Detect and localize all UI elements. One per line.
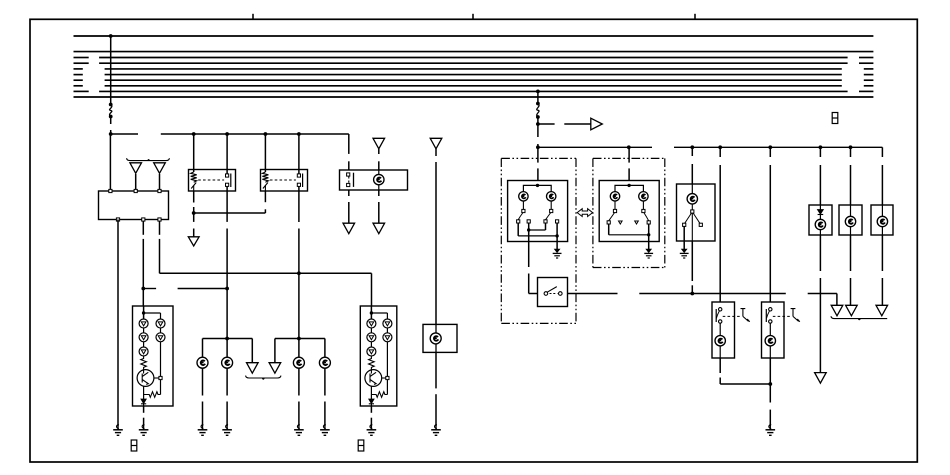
wire S1 right pin down: [378, 190, 380, 196]
wire tie to triangle: [193, 213, 195, 222]
wire dome lamp2 to sw: [550, 201, 552, 210]
ground G6: [222, 425, 232, 436]
lamp L3: [197, 357, 208, 368]
wire switch to lamp door A: [719, 323, 721, 335]
node right lamp group feed: [297, 337, 301, 341]
node relay R1 coil feed: [192, 132, 196, 136]
node main feed right: [536, 145, 540, 149]
node battery tap left: [109, 34, 113, 38]
wire drop triangle D2: [274, 339, 276, 363]
ground G3: [139, 425, 149, 436]
switch door B bar: [765, 309, 767, 322]
relay R2 contact pad bottom: [297, 183, 300, 186]
ground G4: [367, 425, 377, 436]
wire S2 output right: [568, 293, 618, 295]
shield box E2 (dome light assembly 2): [593, 157, 665, 159]
wire relay R1 contact pin up: [226, 134, 228, 175]
wire bus line 3: [74, 57, 89, 59]
door A actuator lever: [741, 309, 750, 322]
wire lamp box L2 to ground: [435, 353, 437, 389]
wire node to node: [537, 124, 539, 137]
wire door B output: [769, 358, 771, 384]
resistor M1 R2 (horizontal): [144, 392, 161, 398]
pin throw 3a: [607, 221, 610, 224]
switch dome blade 2: [546, 213, 551, 220]
node relay R2 coil feed: [264, 132, 268, 136]
pin U1 bottom 1: [116, 218, 119, 221]
wire x436 down to lamp box: [435, 149, 437, 156]
wire switch net y293.5 right part: [639, 293, 692, 295]
wire coil tie y213: [194, 212, 266, 214]
wire U1 pin to ground (x117.5): [117, 220, 119, 427]
wire feed to door unit A: [719, 147, 721, 157]
indicator lamp M2-1: [367, 319, 376, 328]
wire cross feed down to meter M2: [371, 273, 373, 306]
switch door A bar: [715, 309, 717, 322]
lamp luggage: [687, 194, 697, 204]
node door lamp A feed: [718, 145, 722, 149]
wire M1 branch right: [144, 312, 161, 314]
pin throw 2a: [544, 220, 547, 223]
pin dome2 sw2 common: [642, 209, 645, 212]
wire Q1 base link: [154, 377, 159, 379]
node dome2 tie: [647, 233, 650, 236]
node left lamp group feed: [225, 337, 229, 341]
switch S2 terminal 1: [544, 292, 548, 296]
pin throw 3b: [619, 221, 623, 224]
vanity lamp 2 box body: [871, 205, 893, 235]
switch S2 terminal 2: [559, 292, 563, 296]
node relay R1 contact feed: [225, 132, 229, 136]
wire link to node: [537, 117, 539, 124]
switch-lamp unit S1 body: [340, 170, 408, 190]
arrow to other system: [538, 123, 555, 125]
resistor M2 R: [369, 356, 375, 370]
lamp L5: [293, 357, 304, 368]
door courtesy unit B body: [762, 302, 785, 358]
wire triangle C1 down: [378, 149, 380, 154]
combination meter M1 body: [133, 306, 174, 406]
indicator lamp M2-4: [383, 319, 392, 328]
wire relay R2 coil output down: [264, 191, 266, 202]
wire bus line 1 (top feed): [74, 35, 874, 37]
lamp door B: [765, 336, 775, 346]
wire bus line 10 (bottom): [74, 96, 874, 98]
wire dome2 branches: [615, 185, 643, 191]
wire luggage throw to ground: [683, 226, 685, 249]
wire relay R1 coil pin up: [193, 134, 195, 172]
wire M2 right column down: [386, 342, 388, 395]
joint brace E3-F2-F3: [831, 316, 887, 320]
connector triangle C1: [373, 138, 385, 149]
switch door A terminal 2: [719, 320, 722, 323]
switch door B terminal 2: [769, 320, 772, 323]
tick 2 top border: [472, 14, 474, 20]
wire dome output down: [528, 230, 530, 267]
switch S1 dashed link: [348, 176, 350, 183]
switch door A blade: [716, 311, 719, 319]
wire drop lamp L3: [202, 339, 204, 357]
wire M2 to ground: [370, 406, 372, 413]
switch dome blade 1: [518, 213, 523, 220]
connector triangle A2: [154, 163, 166, 174]
spot lamp box body: [809, 205, 832, 235]
pin Q2 base pad: [386, 376, 389, 379]
node luggage to key wire: [690, 292, 694, 296]
wire lamp L3 to ground: [202, 368, 204, 395]
lamp L4: [222, 357, 233, 368]
node bus tap right: [536, 90, 540, 94]
control unit U1 (integration relay): [99, 191, 169, 220]
wire drop lamp L4: [226, 339, 228, 357]
resistor M2 R2 (horizontal): [371, 392, 387, 398]
diode spot lamp: [817, 210, 823, 215]
wire M2 branch right: [371, 312, 387, 314]
wire U1 pin3 down (x159.5): [159, 221, 161, 235]
node main feed left: [109, 132, 113, 136]
pin U1 top 3: [158, 189, 161, 192]
connector triangle E3: [831, 305, 843, 316]
connector triangle B1: [188, 237, 199, 246]
switch S1 pad top: [347, 173, 350, 176]
ground G5: [198, 425, 208, 436]
door switch box S2 body: [538, 278, 568, 307]
fusible link FL1: [109, 103, 113, 107]
node M1 internal split: [142, 311, 145, 314]
transistor Q2: [365, 370, 382, 387]
lamp spot: [815, 219, 825, 229]
power bar above connectors: [127, 158, 170, 160]
wire lamp door B down: [769, 346, 771, 358]
lamp box L2 body: [423, 324, 457, 352]
wire throws outer tie: [517, 223, 519, 236]
shield box E1 (dome light assembly): [501, 157, 576, 159]
switch S2 blade: [547, 287, 557, 293]
lamp dome 2: [547, 192, 556, 201]
switch luggage blades: [685, 213, 700, 223]
wire lamp L4 to ground: [226, 368, 228, 395]
relay R1 coil: [191, 172, 197, 182]
vanity lamp 1 box body: [839, 205, 862, 235]
wire right feed through bus: [537, 91, 539, 103]
pin U1 top 2: [134, 189, 137, 192]
connector triangle C2: [343, 223, 355, 234]
door B actuator lever: [791, 309, 800, 322]
node inner tie: [527, 228, 530, 231]
lamp vanity 1: [845, 216, 855, 226]
wire fusible link to node: [110, 117, 112, 125]
wire tie y288.5 (U1 to relay R1 output): [143, 288, 156, 290]
dome light unit E2 inner body: [599, 181, 659, 242]
fusible link FL2: [536, 102, 540, 106]
wire relay R2 contact pin down: [298, 186, 300, 191]
pin throw 3d: [647, 221, 650, 224]
wire dome2 tie to ground: [648, 235, 650, 250]
ground G9 (case): [553, 249, 562, 258]
lamp L2: [430, 333, 441, 344]
switch S2 dash: [550, 293, 558, 295]
wire triangle A2 to U1: [159, 174, 161, 191]
connector triangle A1: [130, 163, 142, 174]
connector block 8a: [131, 440, 137, 451]
wire vertical feed left through bus: [110, 36, 112, 104]
pin U1 bottom 3: [158, 218, 161, 221]
pin U1 top 1: [109, 189, 112, 192]
wire bus line 4: [74, 62, 89, 64]
transistor Q1: [137, 370, 154, 387]
pin Q1 base pad: [159, 376, 162, 379]
pin dome sw1 common: [522, 209, 525, 212]
joint brace D1-D2: [246, 376, 281, 380]
lamp L6: [319, 357, 330, 368]
equivalence arrow E1-E2: [577, 209, 592, 217]
wire feed to vanity lamp 1: [850, 147, 852, 157]
pin dome2 sw1 common: [613, 209, 616, 212]
ground G1: [113, 425, 123, 436]
pin luggage throw R: [699, 223, 702, 226]
indicator lamp M1-2: [139, 333, 148, 342]
wire left lamp group bar: [203, 338, 253, 340]
pin luggage sw common: [691, 210, 694, 213]
relay R1 dashed link: [198, 179, 224, 181]
node outer tie: [555, 234, 558, 237]
switch door B terminal 1: [769, 308, 772, 311]
wire relay R2 contact pin up: [298, 134, 300, 175]
wire main horizontal left (y134): [111, 133, 138, 135]
lamp door A: [715, 336, 725, 346]
lamp dome2 1: [610, 192, 619, 201]
pin dome sw2 common: [550, 209, 553, 212]
connector triangle C4: [430, 138, 442, 149]
node dome split: [536, 184, 539, 187]
node cross feed junction: [297, 271, 301, 275]
wire feed to door unit B: [769, 147, 771, 157]
wire corner down to triangle E3: [836, 294, 838, 306]
node vanity lamp feed: [849, 145, 853, 149]
wire right lamp group bar: [275, 338, 325, 340]
wire dome lamp1 to sw: [522, 201, 524, 210]
node tie right end: [225, 287, 229, 291]
ground G8: [320, 425, 330, 436]
wire bus line 9: [74, 90, 89, 92]
wire feed down to switch box (x349.2): [348, 134, 350, 154]
indicator lamp M1-5: [156, 333, 165, 342]
wire bus line 5: [74, 68, 83, 70]
lamp L1 in unit S1: [374, 174, 384, 184]
lamp dome2 2: [639, 192, 648, 201]
node dome sw2 feed: [627, 145, 631, 149]
tick 1 top border: [252, 14, 254, 20]
door A actuator dashes: [723, 315, 741, 317]
ground G2: [431, 425, 441, 436]
relay R1 body: [189, 170, 236, 192]
indicator lamp M2-2: [367, 333, 376, 342]
wire bus line 6: [74, 74, 83, 76]
connector triangle F3: [876, 305, 888, 316]
wire door A output: [719, 358, 721, 373]
wire feed to vanity lamp 2 (corner): [881, 147, 883, 157]
pin throw 3c: [635, 221, 639, 224]
connector triangle D1: [247, 363, 259, 374]
wire vanity1 down to triangle: [850, 235, 852, 271]
wire lamp L5 to ground: [298, 368, 300, 395]
lamp vanity 2: [877, 216, 887, 226]
combination meter M2 body: [360, 306, 397, 406]
wire bus line 2: [74, 51, 874, 53]
node M2 internal split: [370, 311, 373, 314]
relay R2 contact bar: [302, 174, 304, 188]
relay R1 contact pad top: [226, 174, 229, 177]
node dome2 split: [627, 184, 630, 187]
diode M1 D: [143, 386, 145, 399]
luggage lamp unit body: [677, 184, 716, 241]
ground G10 (case): [644, 249, 653, 258]
wire bus line 8: [74, 85, 83, 87]
indicator lamp M2-3: [367, 347, 376, 356]
wire relay R1 coil output down: [193, 191, 195, 203]
pin throw 1a: [517, 220, 520, 223]
node meter feed junction: [141, 287, 145, 291]
diode M2 D: [370, 386, 372, 399]
wire lamp L6 to ground: [324, 368, 326, 395]
resistor M1 R: [141, 356, 147, 370]
dome light unit E1 inner body: [508, 181, 568, 242]
node door lamp B feed: [768, 145, 772, 149]
connector triangle C3: [373, 223, 385, 234]
wire dome branches: [523, 185, 551, 191]
door B actuator dashes: [773, 315, 791, 317]
wire S1 left pin down: [348, 190, 350, 196]
wire relay R2 output down (x298.9): [298, 191, 300, 222]
wire relay R2 coil pin up: [264, 134, 266, 172]
switch S1 bar: [353, 173, 355, 187]
wire feed into dome unit 2: [628, 147, 630, 162]
pin throw 1b: [527, 220, 530, 223]
wire main horizontal right (y147.3): [538, 146, 652, 148]
wire dome2 lamp2 to sw: [642, 201, 644, 210]
wire relay R1 contact pin down: [226, 186, 228, 191]
switch door B blade: [766, 311, 769, 319]
wire bus line 7: [74, 79, 83, 81]
node arrow branch: [536, 122, 540, 126]
switch dome2 blade 2: [644, 213, 649, 221]
wire feed to luggage lamp: [691, 147, 693, 156]
wire spot lamp down to triangle: [819, 235, 821, 271]
wire switch to lamp door B: [769, 323, 771, 335]
wire drop lamp L6: [324, 339, 326, 357]
wire outer tie to ground: [556, 236, 558, 250]
pin U1 bottom 2: [142, 218, 145, 221]
switch dome2 blade 1: [609, 213, 615, 221]
relay R1 contact pad bottom: [226, 183, 229, 186]
wire relay R1 output down (x227.1): [226, 191, 228, 222]
lamp dome 1: [519, 192, 528, 201]
wire Q2 base link: [382, 377, 386, 379]
wire junction to meter M1: [142, 289, 144, 307]
wire cross feed y273.3: [160, 272, 372, 274]
connector triangle D2: [269, 363, 281, 374]
relay R2 coil blade: [263, 183, 268, 189]
wire drop lamp L5: [298, 339, 300, 357]
node relay R2 contact feed: [297, 132, 301, 136]
node luggage lamp feed: [690, 145, 694, 149]
switch door A terminal 1: [719, 308, 722, 311]
tick 3 top border: [694, 14, 696, 20]
connector triangle F2: [846, 305, 858, 316]
wire drop triangle D1: [251, 339, 253, 363]
ground G7: [294, 425, 304, 436]
wire lamp door A down: [719, 346, 721, 358]
wire M1 to ground: [143, 406, 145, 413]
wire join to ground: [769, 384, 771, 403]
relay R1 contact bar: [230, 174, 232, 188]
wire M1 right column down: [160, 342, 162, 395]
indicator lamp M1-3: [139, 347, 148, 356]
relay R1 coil blade: [191, 183, 196, 189]
wire U1 pin2 down (x143.3): [142, 221, 144, 235]
wire vanity2 down to triangle: [881, 235, 883, 271]
node spot lamp feed: [819, 145, 823, 149]
wire throws inner tie: [528, 223, 530, 230]
relay R2 contact pad top: [297, 174, 300, 177]
connector block 8c: [832, 113, 838, 124]
door courtesy unit A body: [712, 302, 735, 358]
indicator lamp M1-4: [156, 319, 165, 328]
wire dome2 tie: [608, 224, 610, 235]
pin throw 2b: [556, 220, 559, 223]
connector block 8b: [358, 440, 364, 451]
relay R2 dashed link: [270, 179, 296, 181]
wire feed into dome unit: [537, 147, 539, 162]
wire triangle A1 to U1: [135, 174, 137, 191]
wire dome2 lamp1 to sw: [614, 201, 616, 210]
relay R2 body: [261, 170, 308, 192]
indicator lamp M2-5: [383, 333, 392, 342]
node door outputs join: [768, 382, 772, 386]
indicator lamp M1-1: [139, 319, 148, 328]
wire lamp to switch: [691, 204, 693, 210]
node relay coil tie: [192, 211, 196, 215]
relay R2 coil: [262, 172, 268, 182]
wire luggage common down: [691, 213, 693, 241]
wire feed down to U1 pin 1: [109, 134, 111, 191]
pin luggage throw L: [683, 223, 686, 226]
wire dome output corner: [529, 293, 538, 295]
switch S1 pad bottom: [347, 183, 350, 186]
ground G12: [766, 425, 776, 436]
wire feed to spot lamp: [819, 147, 821, 157]
connector triangle F1: [815, 373, 827, 384]
ground G11: [680, 249, 689, 258]
